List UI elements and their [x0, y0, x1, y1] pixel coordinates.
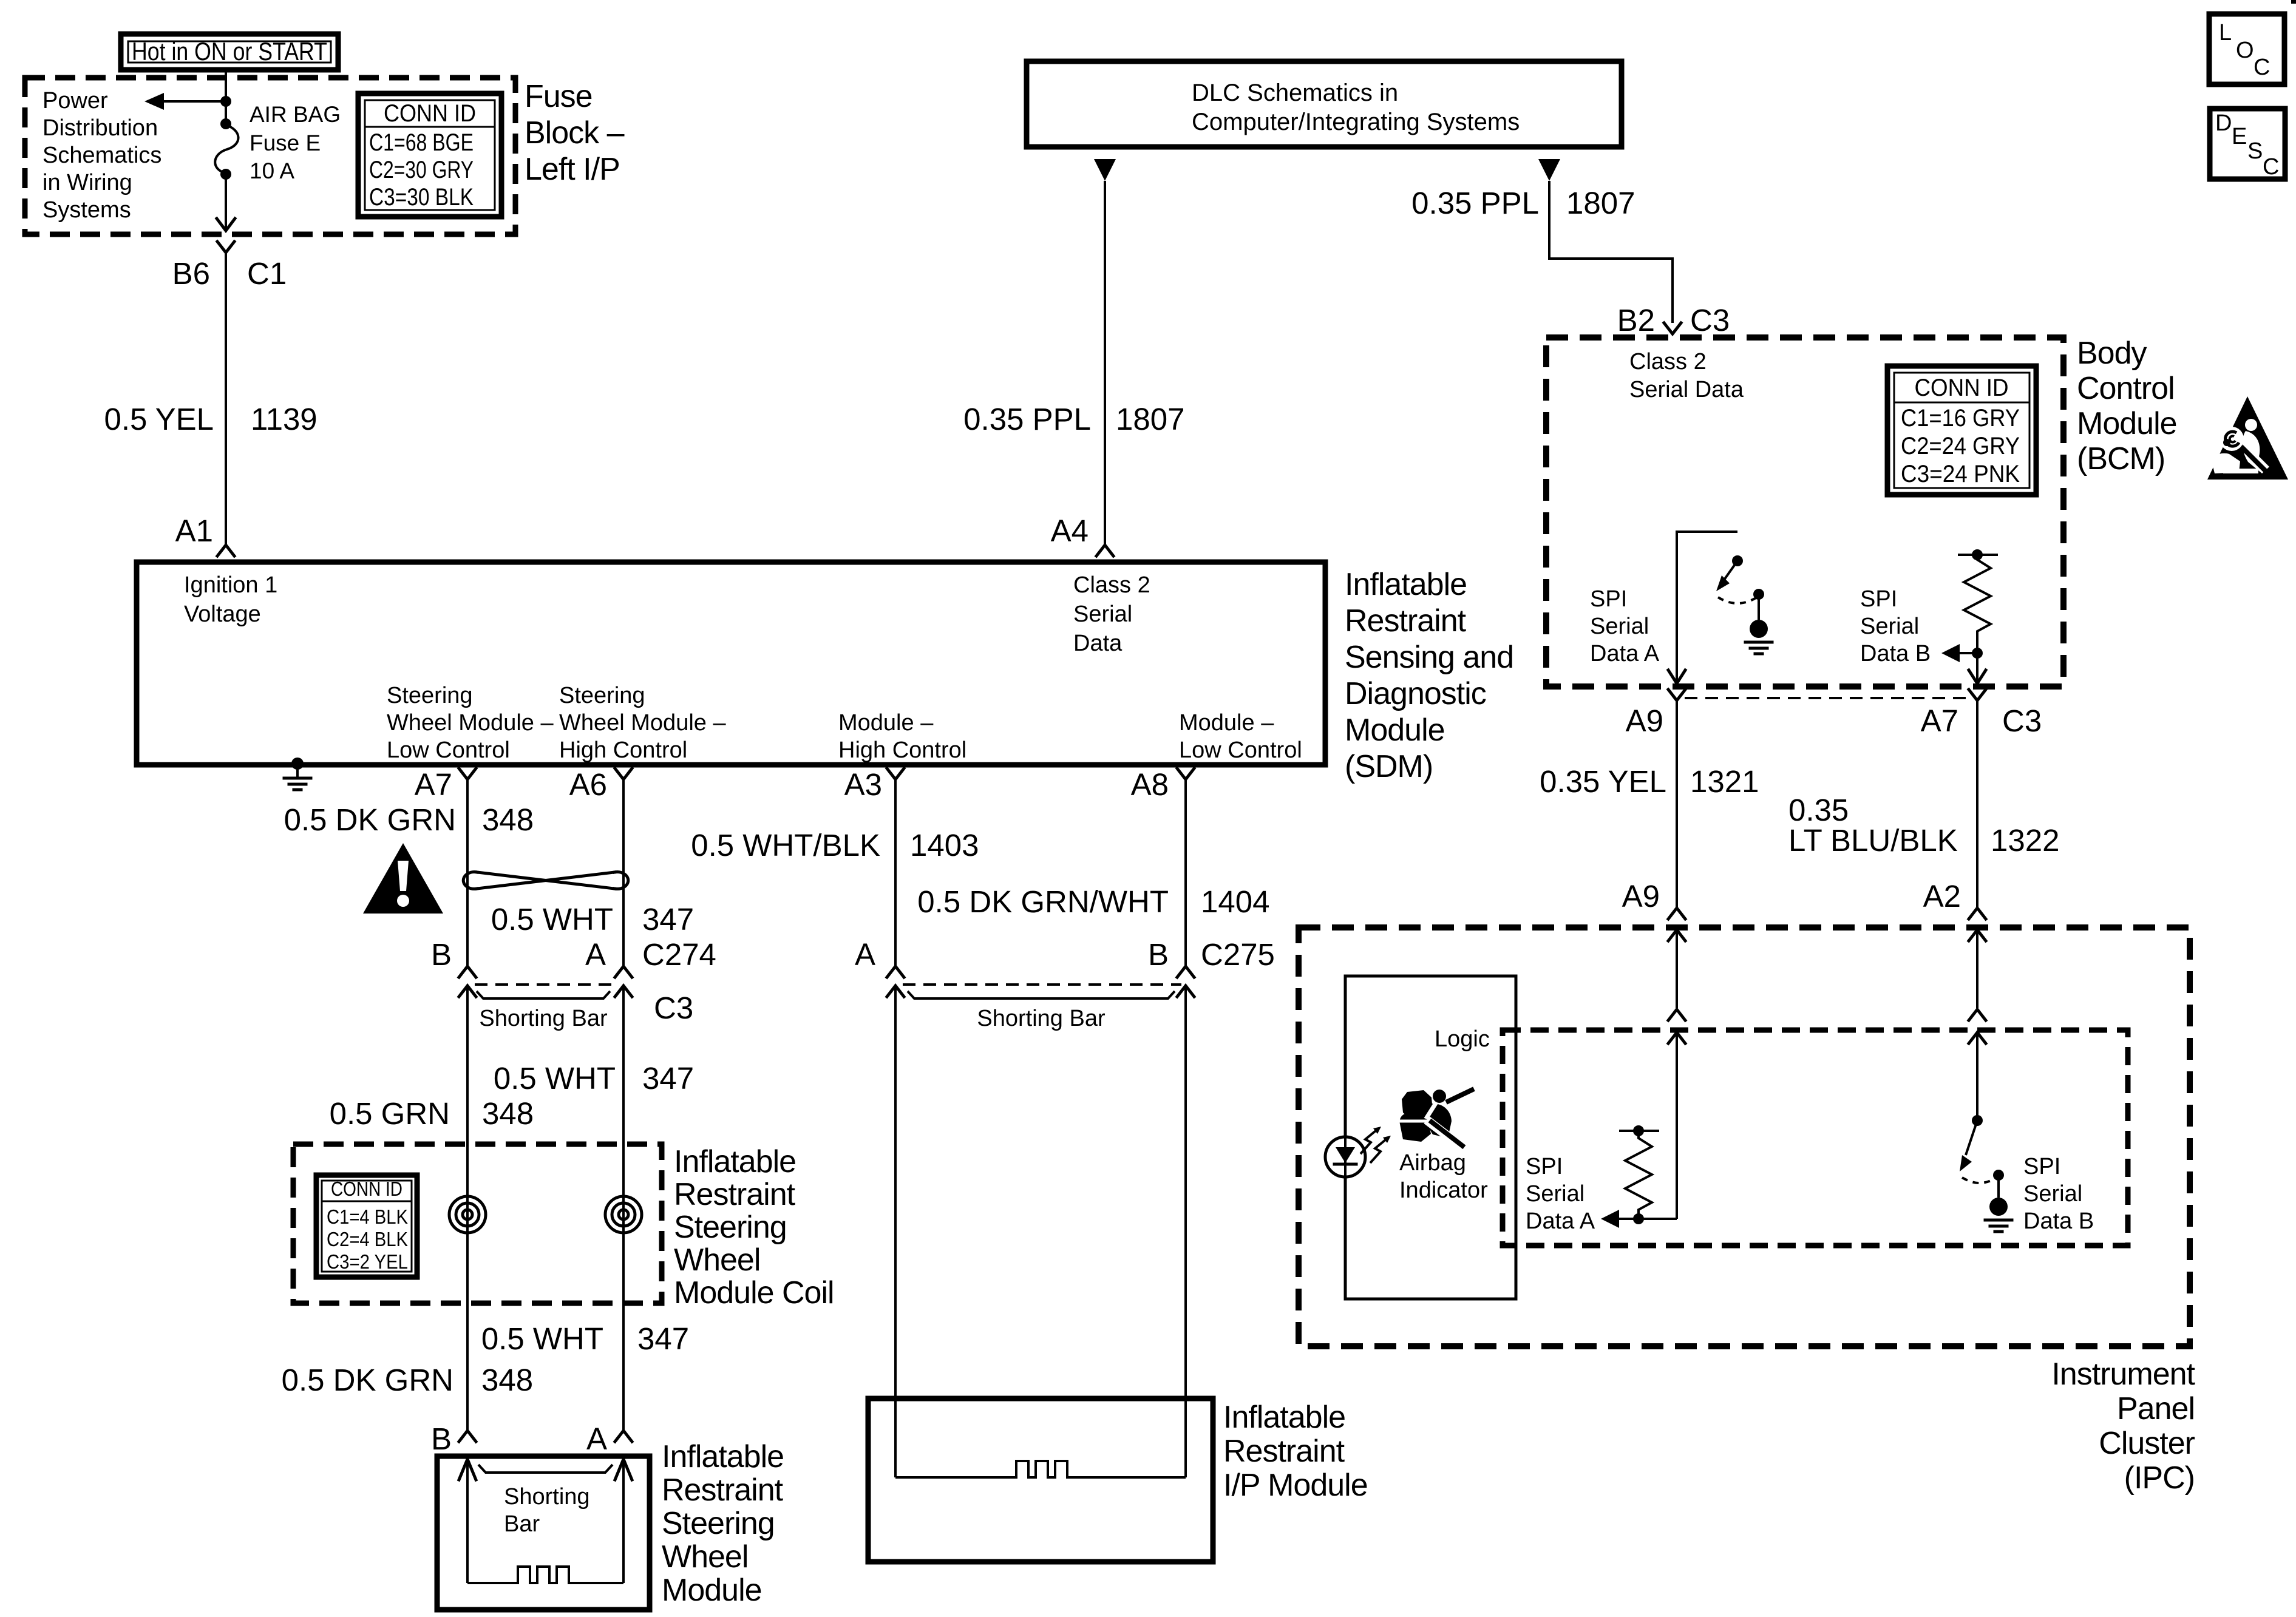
module name: Inflatable Restraint Steering Wheel Module Coil: [674, 1144, 834, 1310]
connector C275 terminal chevrons: [887, 966, 904, 977]
LOC reference box: [2209, 14, 2284, 84]
svg-text:Serial: Serial: [1590, 614, 1649, 639]
CONN ID table (fuse block): [358, 93, 501, 217]
svg-text:AIR BAG: AIR BAG: [250, 102, 341, 127]
svg-text:Control: Control: [2077, 371, 2175, 406]
SDM module box (Inflatable Restraint Sensing and Diagnostic Module): [137, 562, 1325, 765]
open arrow at BCM exit A9: [1668, 670, 1685, 683]
label Airbag Indicator: [1399, 1150, 1488, 1203]
fuse block dashed enclosure (Fuse Block - Left I/P): [25, 78, 515, 234]
connector terminal at BCM pin B2/C3: [1664, 323, 1681, 334]
svg-text:Restraint: Restraint: [1345, 603, 1467, 639]
note: Power Distribution Schematics in Wiring Systems: [42, 88, 161, 223]
ground symbol (IPC switch): [1985, 1220, 2012, 1232]
label SPI Serial Data A (IPC): [1526, 1154, 1595, 1234]
airbag indicator LED symbol: [1325, 1137, 1365, 1177]
svg-text:Steering: Steering: [662, 1506, 775, 1541]
svg-text:Wheel Module –: Wheel Module –: [559, 710, 726, 736]
SPI interface dashed sub-box (IPC): [1503, 1030, 2128, 1246]
svg-text:1139: 1139: [251, 402, 318, 436]
svg-text:348: 348: [481, 1363, 533, 1397]
module name: Inflatable Restraint Sensing and Diagnostic Module (SDM): [1345, 567, 1513, 784]
connector chevron above SPI sub-box (A9 wire): [1668, 1009, 1685, 1020]
male terminal entering IPC (A9 wire): [1668, 930, 1685, 941]
svg-text:Wheel: Wheel: [674, 1242, 760, 1278]
svg-text:Panel: Panel: [2117, 1391, 2195, 1426]
svg-text:Shorting Bar: Shorting Bar: [479, 1006, 608, 1031]
svg-text:Inflatable: Inflatable: [1223, 1400, 1345, 1435]
twisted pair symbol (wires 347/348): [463, 872, 628, 889]
svg-text:Data: Data: [1073, 631, 1123, 656]
svg-text:Fuse E: Fuse E: [250, 131, 321, 155]
SPI serial data B switch (IPC): [1960, 1115, 2008, 1216]
svg-text:C1=16 GRY: C1=16 GRY: [1901, 405, 2020, 432]
svg-text:Data B: Data B: [1860, 641, 1931, 666]
male terminal entering IPC (A2 wire): [1969, 930, 1986, 941]
logic block box (IPC): [1345, 976, 1516, 1299]
svg-text:C3=30 BLK: C3=30 BLK: [369, 184, 474, 211]
svg-text:Hot in ON or START: Hot in ON or START: [132, 37, 327, 66]
wire 1321 from BCM A9 to IPC: [1676, 700, 1678, 907]
coil symbol (wire 348): [449, 1196, 486, 1233]
svg-text:A7: A7: [1921, 703, 1958, 738]
svg-text:Restraint: Restraint: [662, 1473, 784, 1508]
svg-text:0.35 YEL: 0.35 YEL: [1540, 764, 1666, 799]
svg-text:B: B: [431, 937, 452, 972]
svg-text:B: B: [431, 1422, 452, 1456]
label SPI Serial Data A (BCM): [1590, 586, 1660, 666]
svg-text:C3=2 YEL: C3=2 YEL: [327, 1250, 408, 1273]
svg-text:Module: Module: [662, 1573, 762, 1608]
svg-text:E: E: [2232, 124, 2247, 149]
wire 1403 to I/P module: [894, 986, 897, 1398]
svg-text:0.5 WHT: 0.5 WHT: [481, 1321, 603, 1356]
svg-text:C3: C3: [2002, 703, 2042, 738]
module name: Body Control Module (BCM): [2077, 336, 2177, 476]
svg-text:O: O: [2236, 38, 2254, 63]
svg-text:Data A: Data A: [1590, 641, 1660, 666]
squib element (I/P module): [895, 1461, 1186, 1477]
svg-text:Shorting Bar: Shorting Bar: [977, 1006, 1106, 1031]
svg-text:Module: Module: [2077, 406, 2177, 441]
power source label box "Hot in ON or START": [121, 34, 338, 70]
svg-text:A4: A4: [1051, 514, 1089, 548]
svg-text:A1: A1: [175, 514, 213, 548]
svg-text:0.5 YEL: 0.5 YEL: [104, 402, 214, 436]
svg-text:Cluster: Cluster: [2099, 1426, 2195, 1461]
male terminal entering SPI sub-box (A2 wire): [1969, 1032, 1986, 1043]
shorting bar bracket (C275): [908, 991, 1175, 998]
SPI serial data A pull-up resistor (IPC): [1601, 1125, 1677, 1228]
svg-text:CONN ID: CONN ID: [1915, 375, 2009, 401]
svg-text:Serial: Serial: [1860, 614, 1919, 639]
wire 1404 segment from SDM A8: [1184, 779, 1187, 966]
svg-text:C2=24 GRY: C2=24 GRY: [1901, 433, 2020, 459]
svg-text:D: D: [2215, 110, 2232, 136]
pin B inside I/P module: [1184, 1398, 1187, 1477]
connector terminal at IPC pin A2: [1969, 908, 1986, 919]
svg-text:Inflatable: Inflatable: [662, 1439, 784, 1474]
pin function label: Class 2 Serial Data (BCM): [1629, 349, 1744, 402]
svg-text:Restraint: Restraint: [1223, 1434, 1345, 1469]
connector terminal below SDM pin A3: [887, 768, 904, 779]
svg-text:Low Control: Low Control: [387, 737, 510, 763]
svg-text:Restraint: Restraint: [674, 1177, 796, 1212]
svg-text:in Wiring: in Wiring: [42, 170, 132, 195]
open arrow at fuse block exit: [217, 219, 235, 231]
connector terminal below BCM pin A7/C3: [1969, 690, 1986, 700]
svg-text:SPI: SPI: [1526, 1154, 1563, 1179]
svg-text:Bar: Bar: [504, 1511, 540, 1537]
svg-text:0.5 WHT: 0.5 WHT: [494, 1061, 616, 1096]
CONN ID table (BCM): [1887, 366, 2036, 495]
svg-text:B6: B6: [172, 256, 210, 291]
svg-text:C2=4 BLK: C2=4 BLK: [327, 1228, 408, 1250]
pin function label: Class 2 Serial Data: [1073, 572, 1150, 656]
svg-text:Diagnostic: Diagnostic: [1345, 676, 1486, 711]
pin function label: Ignition 1 Voltage: [184, 572, 277, 627]
wire 1322 from BCM A7 to IPC: [1976, 700, 1978, 907]
svg-text:A6: A6: [569, 767, 607, 802]
svg-text:A: A: [585, 937, 606, 972]
connector chevron at SDM pin A4: [1096, 545, 1113, 556]
value label: AIR BAG Fuse E 10 A: [250, 102, 341, 183]
svg-text:C3: C3: [1690, 303, 1730, 337]
wire 1807: class 2 serial data to SDM: [1104, 181, 1106, 544]
svg-text:348: 348: [482, 802, 534, 837]
svg-text:0.5 DK GRN: 0.5 DK GRN: [282, 1363, 453, 1397]
svg-text:High Control: High Control: [559, 737, 687, 763]
svg-text:DLC Schematics in: DLC Schematics in: [1192, 80, 1398, 106]
svg-text:A: A: [586, 1422, 607, 1456]
SIR airbag warning triangle (BCM): [2207, 396, 2288, 480]
svg-text:A9: A9: [1626, 703, 1663, 738]
IPC dashed enclosure (Instrument Panel Cluster): [1299, 927, 2190, 1346]
connector C275 mating line (dashed): [903, 983, 1181, 986]
svg-text:Low Control: Low Control: [1179, 737, 1302, 763]
svg-text:LT BLU/BLK: LT BLU/BLK: [1788, 823, 1958, 858]
connector C274 male terminals: [459, 986, 476, 997]
svg-text:(IPC): (IPC): [2124, 1460, 2195, 1496]
module name: Inflatable Restraint Steering Wheel Module: [662, 1439, 784, 1608]
coil symbol (wire 347): [605, 1196, 642, 1233]
svg-text:(BCM): (BCM): [2077, 441, 2165, 476]
pin A inside I/P module: [894, 1398, 897, 1477]
wire 347 below C274: [622, 986, 625, 1431]
male pin B inside module: [466, 1459, 469, 1583]
airbag pictograph (IPC): [1394, 1089, 1474, 1151]
svg-text:C3=24 PNK: C3=24 PNK: [1901, 461, 2020, 487]
svg-text:Data A: Data A: [1526, 1209, 1595, 1234]
pin function label: Steering Wheel Module - Low Control: [387, 683, 554, 763]
svg-text:Inflatable: Inflatable: [674, 1144, 796, 1179]
svg-text:A9: A9: [1622, 879, 1660, 914]
svg-text:Inflatable: Inflatable: [1345, 567, 1467, 602]
svg-text:Serial: Serial: [1526, 1181, 1584, 1207]
pin function label: Module - High Control: [838, 710, 966, 763]
svg-text:Power: Power: [42, 88, 108, 114]
svg-text:A: A: [855, 937, 875, 972]
squib element (steering wheel module): [467, 1567, 623, 1583]
DLC reference box: [1027, 61, 1622, 147]
svg-text:0.5 WHT/BLK: 0.5 WHT/BLK: [691, 828, 880, 863]
module name: Instrument Panel Cluster (IPC): [2051, 1357, 2195, 1496]
svg-text:C3: C3: [654, 991, 693, 1025]
svg-text:0.35: 0.35: [1788, 793, 1849, 827]
svg-text:(SDM): (SDM): [1345, 749, 1433, 784]
SIR caution triangle: [363, 843, 443, 914]
wire 1403 segment from SDM A3: [894, 779, 897, 966]
svg-text:A2: A2: [1923, 879, 1961, 914]
connector terminal below SDM pin A8: [1177, 768, 1194, 779]
junction node on hot feed: [220, 96, 231, 107]
shorting bar bracket (C274): [477, 991, 610, 998]
svg-text:10 A: 10 A: [250, 158, 294, 183]
connector terminal above steering wheel module pin B: [459, 1431, 476, 1442]
svg-text:Serial Data: Serial Data: [1629, 377, 1744, 402]
svg-text:Serial: Serial: [2023, 1181, 2082, 1207]
SPI serial data A driver (BCM switch): [1677, 532, 1768, 683]
svg-text:1807: 1807: [1116, 402, 1184, 436]
svg-text:Instrument: Instrument: [2051, 1357, 2195, 1392]
svg-text:B: B: [1148, 937, 1169, 972]
svg-text:CONN ID: CONN ID: [384, 100, 476, 127]
connector C1 terminal B6 (female fork): [217, 242, 234, 253]
wire 347 segment from SDM A6: [622, 779, 625, 966]
svg-text:Fuse: Fuse: [525, 79, 593, 114]
connector C274 mating line (dashed): [475, 983, 619, 986]
svg-text:Class 2: Class 2: [1629, 349, 1707, 375]
svg-text:Computer/Integrating Systems: Computer/Integrating Systems: [1192, 109, 1520, 135]
svg-text:348: 348: [482, 1096, 534, 1131]
wire 1807: class 2 serial data to BCM: [1549, 181, 1673, 323]
page edge tick mark: [2291, 0, 2296, 4]
connector C275 male terminals: [887, 986, 904, 997]
wire A9 inside SPI sub-box: [1676, 1032, 1678, 1219]
DESC reference box: [2210, 109, 2285, 180]
svg-text:0.5 WHT: 0.5 WHT: [491, 902, 613, 937]
arrow from DLC box (right branch): [1538, 159, 1560, 181]
svg-text:A7: A7: [415, 767, 452, 802]
svg-text:C2=30 GRY: C2=30 GRY: [369, 157, 474, 183]
wire: hot feed from label box to fuse: [225, 70, 227, 121]
connector terminal at IPC pin A9: [1668, 908, 1685, 919]
module name: Fuse Block - Left I/P: [525, 79, 625, 187]
male terminal entering SPI sub-box (A9 wire): [1668, 1032, 1685, 1043]
svg-text:B2: B2: [1617, 303, 1655, 337]
svg-text:High Control: High Control: [838, 737, 966, 763]
svg-text:Module Coil: Module Coil: [674, 1275, 834, 1310]
svg-text:C: C: [2263, 154, 2279, 180]
SPI serial data B pull-up resistor (BCM): [1941, 549, 1998, 683]
CONN ID table (coil): [316, 1175, 417, 1277]
svg-text:Logic: Logic: [1435, 1026, 1490, 1052]
connector chevron at SDM pin A1: [217, 545, 234, 556]
svg-text:Indicator: Indicator: [1399, 1178, 1488, 1203]
svg-text:SPI: SPI: [1590, 586, 1627, 612]
shorting bar bracket (module): [478, 1465, 613, 1473]
ground symbol (BCM switch): [1745, 642, 1772, 654]
svg-text:CONN ID: CONN ID: [331, 1178, 402, 1200]
svg-text:0.5 DK GRN/WHT: 0.5 DK GRN/WHT: [917, 884, 1169, 919]
BCM dashed enclosure (Body Control Module): [1546, 337, 2063, 686]
svg-text:Sensing and: Sensing and: [1345, 640, 1513, 675]
svg-text:C1=68 BGE: C1=68 BGE: [369, 129, 474, 156]
arrow from DLC box (left branch): [1094, 159, 1116, 181]
wire: branch to power distribution with left arrow: [144, 93, 226, 110]
svg-text:1322: 1322: [1991, 823, 2059, 858]
svg-text:C274: C274: [642, 937, 716, 972]
svg-text:Wheel Module –: Wheel Module –: [387, 710, 554, 736]
svg-text:Steering: Steering: [387, 683, 473, 708]
svg-text:Block –: Block –: [525, 115, 625, 151]
svg-text:Shorting: Shorting: [504, 1484, 590, 1510]
svg-text:C1=4 BLK: C1=4 BLK: [327, 1205, 408, 1228]
male pin A inside module: [622, 1459, 625, 1583]
svg-text:347: 347: [642, 1061, 694, 1096]
svg-text:Ignition 1: Ignition 1: [184, 572, 277, 598]
svg-text:Schematics: Schematics: [42, 143, 161, 168]
svg-text:SPI: SPI: [1860, 586, 1897, 612]
svg-text:C1: C1: [247, 256, 287, 291]
connector terminal below SDM pin A6: [615, 768, 632, 779]
svg-text:Steering: Steering: [674, 1210, 787, 1245]
svg-text:1807: 1807: [1566, 186, 1635, 220]
svg-text:Data B: Data B: [2023, 1209, 2094, 1234]
I/P module box: [868, 1398, 1213, 1562]
svg-text:Airbag: Airbag: [1399, 1150, 1466, 1176]
connector C274 terminal chevrons: [459, 966, 476, 977]
in-line connector dashed mating line (below BCM): [1685, 697, 1969, 699]
svg-text:A3: A3: [844, 767, 882, 802]
module name: Inflatable Restraint I/P Module: [1223, 1400, 1368, 1503]
label SPI Serial Data B (IPC): [2023, 1154, 2094, 1234]
connector terminal below BCM pin A9: [1668, 690, 1685, 700]
svg-text:347: 347: [637, 1321, 689, 1356]
svg-text:C275: C275: [1201, 937, 1275, 972]
svg-text:Class 2: Class 2: [1073, 572, 1150, 598]
svg-text:C: C: [2254, 55, 2270, 80]
svg-text:Body: Body: [2077, 336, 2147, 371]
svg-text:Voltage: Voltage: [184, 602, 261, 627]
svg-text:A8: A8: [1131, 767, 1169, 802]
svg-text:S: S: [2247, 138, 2263, 164]
svg-text:Left I/P: Left I/P: [525, 152, 620, 187]
svg-text:1404: 1404: [1201, 884, 1269, 919]
svg-text:I/P Module: I/P Module: [1223, 1468, 1368, 1503]
open arrow at BCM exit A7: [1969, 670, 1986, 683]
svg-text:1321: 1321: [1690, 764, 1759, 799]
label SPI Serial Data B (BCM): [1860, 586, 1931, 666]
svg-text:Module –: Module –: [838, 710, 934, 736]
pin function label: Steering Wheel Module - High Control: [559, 683, 726, 763]
wire A2 inside SPI sub-box: [1976, 1032, 1978, 1120]
svg-text:L: L: [2219, 20, 2232, 46]
svg-text:Serial: Serial: [1073, 602, 1132, 627]
connector terminal above steering wheel module pin A: [615, 1431, 632, 1442]
svg-text:0.5 DK GRN: 0.5 DK GRN: [284, 802, 456, 837]
svg-text:Module: Module: [1345, 713, 1445, 748]
LED light emission arrows: [1360, 1127, 1391, 1163]
svg-text:1403: 1403: [910, 828, 979, 863]
wire 1139: ignition feed to SDM: [225, 253, 227, 544]
svg-text:SPI: SPI: [2023, 1154, 2060, 1179]
wire 348 below C274: [466, 986, 469, 1431]
svg-text:Steering: Steering: [559, 683, 645, 708]
fuse E 10 A (AIR BAG) symbol: [215, 118, 238, 180]
connector chevron above SPI sub-box (A2 wire): [1969, 1009, 1986, 1020]
pin function label: Module - Low Control: [1179, 710, 1302, 763]
svg-text:0.35 PPL: 0.35 PPL: [963, 402, 1091, 436]
svg-text:0.5 GRN: 0.5 GRN: [330, 1096, 450, 1131]
wire: fuse output down to fuse block edge: [225, 175, 227, 229]
svg-text:Distribution: Distribution: [42, 115, 158, 141]
svg-text:0.35 PPL: 0.35 PPL: [1411, 186, 1539, 220]
steering wheel module box: [437, 1456, 650, 1610]
ground symbol on SDM case: [284, 758, 311, 790]
svg-text:347: 347: [642, 902, 694, 937]
connector terminal below SDM pin A7: [459, 768, 476, 779]
svg-text:Systems: Systems: [42, 197, 131, 223]
wire 348 segment from SDM A7: [466, 779, 469, 966]
wire 1404 to I/P module: [1184, 986, 1187, 1398]
svg-text:Wheel: Wheel: [662, 1539, 748, 1575]
svg-text:Module –: Module –: [1179, 710, 1274, 736]
steering wheel module coil dashed enclosure: [293, 1144, 662, 1303]
